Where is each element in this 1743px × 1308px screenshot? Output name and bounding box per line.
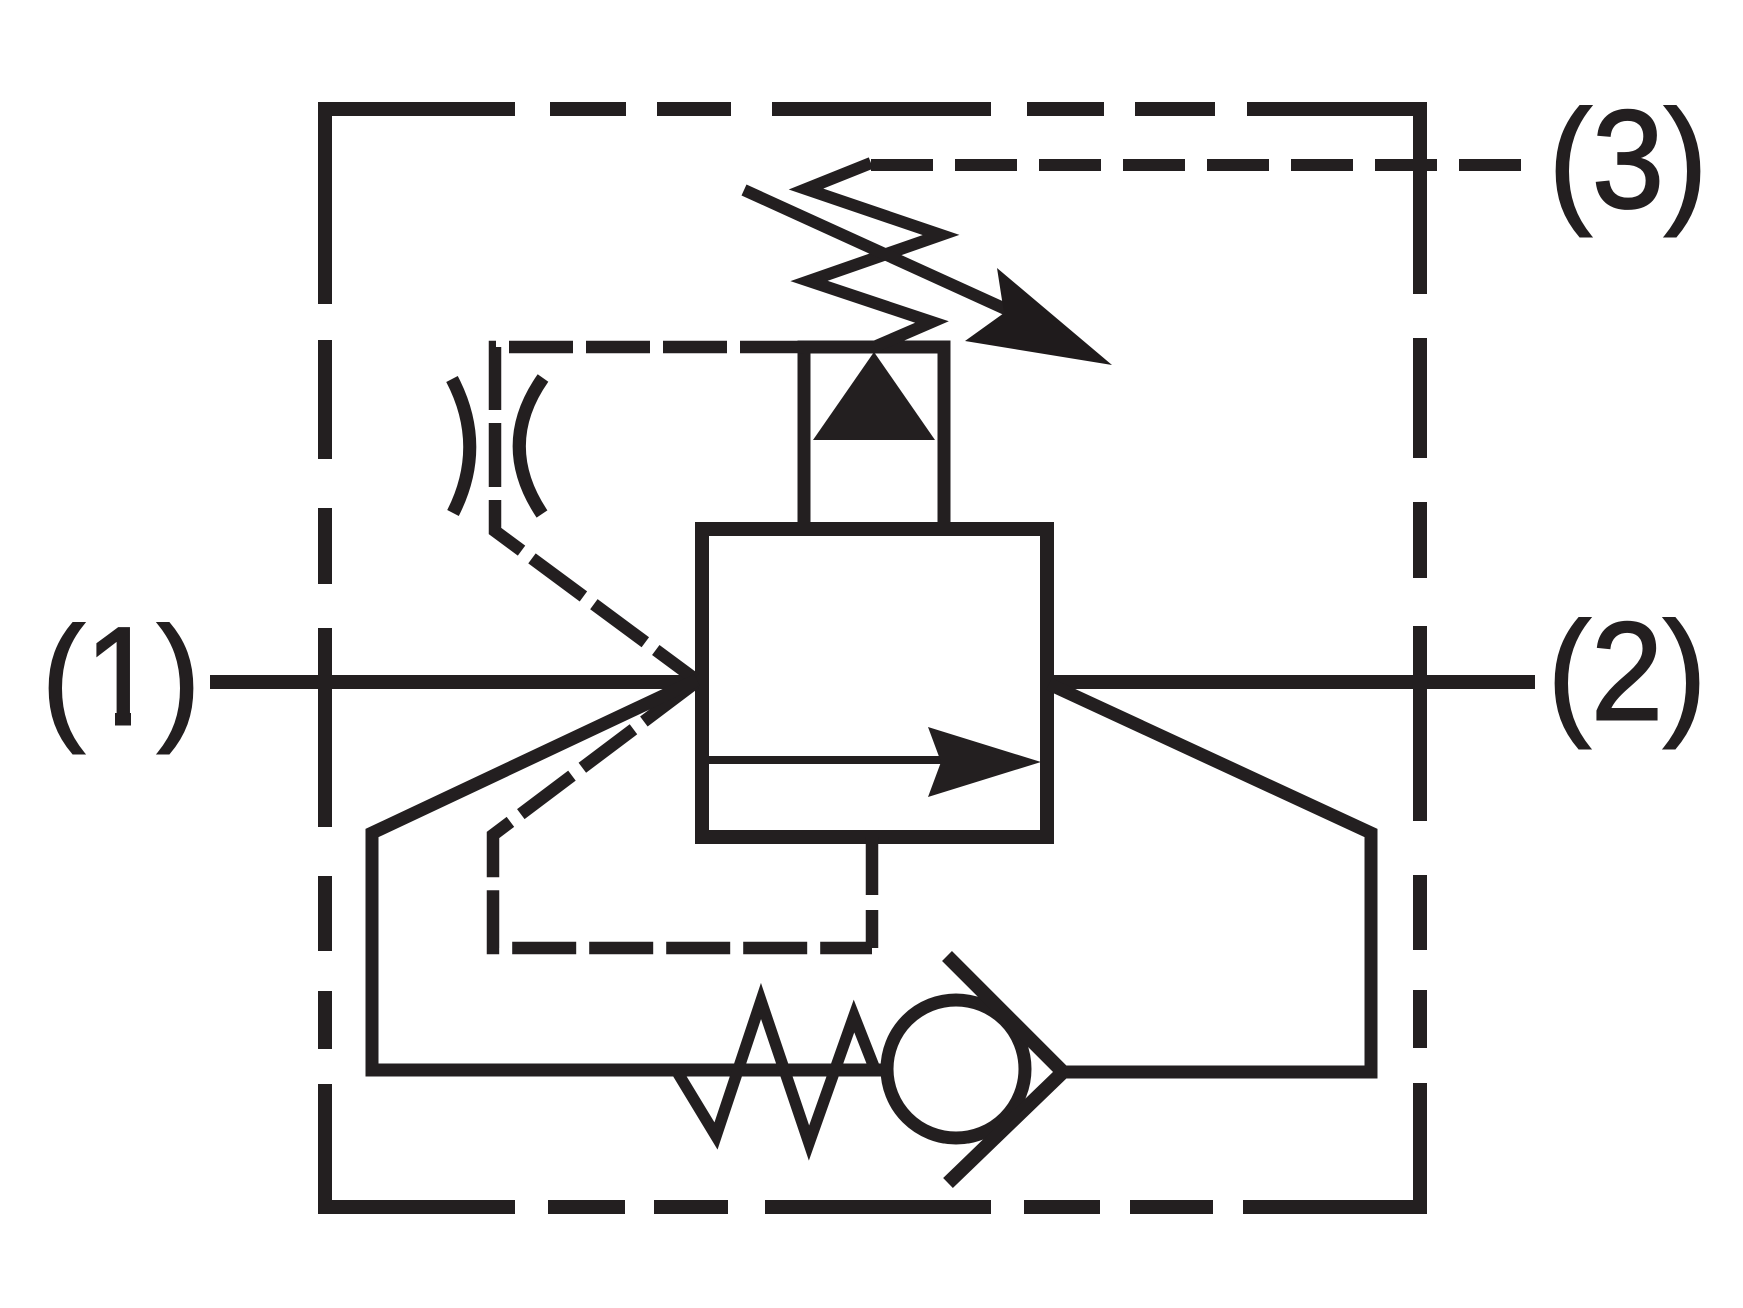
bypass solid line left (diagonal from port 1 node) [372, 680, 884, 1070]
envelope dashed border top edge [318, 102, 1427, 116]
adjustment arrow shaft through spring [744, 190, 1012, 312]
filled triangle (pilot poppet) inside cap box [813, 352, 935, 440]
svg-text:(3): (3) [1549, 81, 1708, 238]
mask: remove serif foot of digit 1 (left wing) [89, 710, 115, 729]
main valve body box [702, 529, 1047, 837]
port (3) dashed pilot line [871, 159, 1531, 171]
upper pilot dashed line to cap (with orifice) [495, 347, 804, 679]
svg-text:(1): (1) [42, 598, 201, 755]
mask: remove serif foot of digit 1 (right wing) [131, 710, 157, 729]
adjustment arrowhead [965, 268, 1112, 365]
envelope dashed border bottom edge [318, 1200, 1427, 1214]
adjustable spring zigzag above valve [806, 163, 941, 347]
bypass solid line right (up to port 2 node) [1049, 684, 1371, 1072]
envelope dashed border left edge [318, 102, 332, 1214]
flow arrowhead inside valve body [928, 727, 1041, 797]
orifice right arc "(" [519, 378, 543, 514]
port (1) line [210, 675, 699, 689]
flow arrow shaft inside valve body [707, 756, 941, 764]
orifice left arc ")" [452, 379, 470, 513]
check valve spring zigzag [676, 1001, 876, 1143]
check valve ball circle [887, 1000, 1025, 1138]
valve bottom dashed stub [866, 837, 879, 948]
envelope dashed border right edge [1413, 102, 1427, 1214]
check valve seat chevron [947, 956, 1063, 1183]
pilot cap box on top of valve [804, 347, 944, 529]
svg-text:(2): (2) [1548, 593, 1707, 750]
lower pilot dashed loop from valve bottom [493, 683, 872, 948]
port (2) line [1049, 675, 1535, 689]
